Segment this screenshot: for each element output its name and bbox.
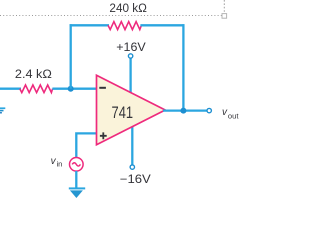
source sine symbol bbox=[72, 163, 80, 166]
node output junction bbox=[180, 108, 186, 114]
wire output bbox=[163, 109, 207, 111]
terminal +16V open circle bbox=[128, 54, 132, 58]
wire feedback top right segment bbox=[140, 24, 184, 26]
resistor RF 240 kOhm bbox=[108, 22, 141, 30]
output terminal open circle bbox=[207, 108, 211, 112]
wire feedback top left segment bbox=[70, 24, 109, 26]
wire input right lead bbox=[52, 88, 98, 90]
svg-text:741: 741 bbox=[112, 104, 134, 122]
svg-text:+16V: +16V bbox=[116, 42, 146, 54]
op-amp minus input sign bbox=[99, 87, 106, 89]
wire source to ground bbox=[75, 171, 77, 189]
terminal -16V open circle bbox=[130, 165, 134, 169]
node junction at inverting input bbox=[68, 86, 74, 92]
wire noninverting input (elbow) bbox=[76, 133, 98, 158]
ground symbol bbox=[69, 187, 85, 198]
wire +16V supply vertical bbox=[129, 58, 131, 96]
decorative selection marquee (unlabeled) bbox=[0, 15, 222, 17]
svg-text:in: in bbox=[57, 160, 63, 169]
op-amp U1 741 body bbox=[97, 75, 166, 145]
wire feedback right vertical bbox=[182, 24, 184, 110]
svg-text:−16V: −16V bbox=[120, 174, 151, 186]
source v_in circle bbox=[70, 158, 84, 172]
wire input left lead bbox=[0, 88, 21, 90]
resistor R1 2.4 kOhm bbox=[20, 85, 53, 93]
wire -16V supply vertical bbox=[131, 124, 133, 165]
op-amp plus input sign bbox=[100, 132, 107, 139]
svg-text:2.4 kΩ: 2.4 kΩ bbox=[15, 69, 52, 81]
svg-text:out: out bbox=[228, 112, 239, 121]
partial arrow fragment at left edge bbox=[0, 107, 5, 113]
svg-text:240 kΩ: 240 kΩ bbox=[109, 3, 147, 15]
wire feedback left vertical bbox=[70, 24, 72, 89]
